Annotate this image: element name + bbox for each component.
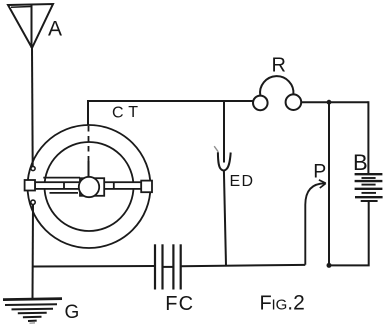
wire ED drop from top rail <box>223 102 225 163</box>
wire CT to top rail <box>88 101 253 125</box>
ground G <box>3 299 62 324</box>
label CT <box>112 104 138 122</box>
tuner CT outer circle <box>28 125 151 248</box>
svg-text:C: C <box>179 293 193 315</box>
capacitor FC <box>155 244 181 289</box>
svg-text:R: R <box>272 55 286 77</box>
svg-text:.2: .2 <box>287 292 305 315</box>
bottom rail right segment <box>181 265 306 266</box>
phones R right earpiece <box>286 94 302 110</box>
wiper arrow P <box>305 180 326 265</box>
svg-text:E: E <box>230 173 241 190</box>
CT left end block <box>25 180 35 191</box>
CT shaft solid line <box>88 161 90 177</box>
tuner CT inner circle <box>45 142 134 231</box>
CT center knob <box>79 177 99 197</box>
svg-text:F: F <box>165 293 177 315</box>
wire terminal to ground <box>32 205 35 299</box>
svg-text:IG: IG <box>272 297 288 314</box>
junction dot bottom <box>327 263 332 268</box>
label FC <box>165 293 193 315</box>
wire ED to bottom rail <box>224 170 226 265</box>
svg-text:T: T <box>128 104 138 121</box>
stray mark <box>214 146 218 152</box>
potentiometer wire P vertical <box>328 102 330 265</box>
wire battery to bottom rail <box>329 201 369 265</box>
detector ED cup <box>218 152 231 170</box>
junction dot top <box>327 100 332 105</box>
bottom rail left segment <box>33 265 156 268</box>
CT rotor bar <box>35 178 141 193</box>
svg-text:A: A <box>48 18 62 41</box>
wire right corner down to battery <box>367 101 369 174</box>
terminal node upper <box>31 166 35 170</box>
label ED <box>230 173 254 190</box>
label Fig.2 <box>260 292 305 315</box>
svg-text:C: C <box>112 105 124 122</box>
terminal node lower <box>31 200 35 204</box>
wire antenna to CT terminal <box>31 48 34 166</box>
phones R left earpiece <box>253 96 268 111</box>
CT center plate <box>80 178 104 196</box>
phones R headband arc <box>260 76 293 95</box>
CT right end block <box>141 181 152 193</box>
svg-text:P: P <box>313 161 326 183</box>
svg-text:F: F <box>260 293 272 315</box>
battery B <box>355 174 383 201</box>
svg-text:B: B <box>353 150 368 175</box>
antenna A <box>8 4 53 48</box>
CT shaft dashed line <box>88 126 90 161</box>
wire phones to right corner <box>301 101 368 103</box>
svg-text:G: G <box>65 302 80 323</box>
svg-text:D: D <box>242 173 254 190</box>
